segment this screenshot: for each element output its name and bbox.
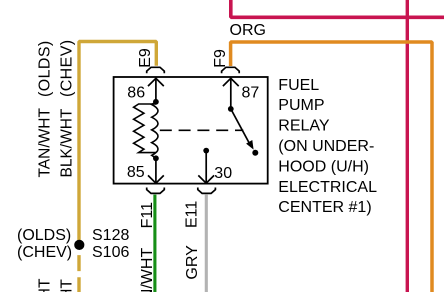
svg-text:(OLDS): (OLDS) <box>17 227 71 244</box>
svg-text:87: 87 <box>242 84 260 101</box>
svg-text:F9: F9 <box>212 49 229 68</box>
svg-text:PUMP: PUMP <box>278 97 324 114</box>
svg-text:GRY: GRY <box>184 245 201 280</box>
svg-text:S128: S128 <box>92 227 129 244</box>
svg-text:FUEL: FUEL <box>278 77 319 94</box>
svg-text:E9: E9 <box>137 48 154 68</box>
svg-text:(ON UNDER-: (ON UNDER- <box>278 138 374 155</box>
svg-text:ORG: ORG <box>230 22 266 39</box>
svg-text:ELECTRICAL: ELECTRICAL <box>278 179 377 196</box>
svg-text:TAN/WHT: TAN/WHT <box>36 108 53 178</box>
svg-text:BLK/WHT: BLK/WHT <box>58 108 75 177</box>
svg-text:RELAY: RELAY <box>278 118 330 135</box>
svg-text:(OLDS): (OLDS) <box>37 40 54 97</box>
svg-text:F11: F11 <box>139 202 156 228</box>
svg-text:CENTER #1): CENTER #1) <box>278 199 371 216</box>
svg-text:E11: E11 <box>184 201 201 228</box>
svg-text:HOOD (U/H): HOOD (U/H) <box>278 158 369 175</box>
svg-text:S106: S106 <box>92 244 129 261</box>
svg-text:BLK/WHT: BLK/WHT <box>58 279 75 292</box>
svg-text:85: 85 <box>127 164 145 181</box>
svg-text:(CHEV): (CHEV) <box>17 244 72 261</box>
svg-text:86: 86 <box>127 84 145 101</box>
svg-text:30: 30 <box>214 165 232 182</box>
svg-text:TAN/WHT: TAN/WHT <box>36 278 53 292</box>
svg-text:(CHEV): (CHEV) <box>59 39 76 97</box>
svg-text:GRN/WHT: GRN/WHT <box>139 248 156 292</box>
